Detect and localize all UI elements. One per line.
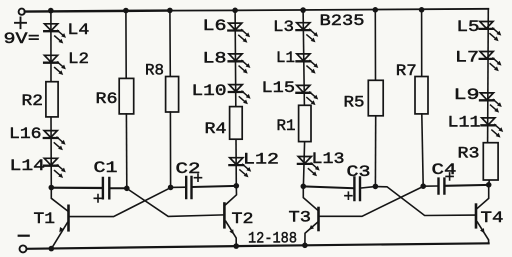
node: rail junction R8 bbox=[167, 8, 173, 14]
node: rail junction R5 bbox=[373, 7, 379, 13]
svg-text:L10: L10 bbox=[192, 82, 227, 100]
resistor R3 bbox=[483, 143, 498, 180]
battery negative terminal bbox=[20, 245, 27, 252]
C4 plus sign bbox=[446, 173, 453, 180]
wire C1 to node bbox=[111, 187, 127, 189]
wire node to C4 bbox=[423, 185, 437, 187]
LED L2 bbox=[44, 55, 66, 75]
wire chain4 lower bbox=[488, 180, 491, 185]
LED L5 bbox=[480, 22, 502, 42]
bottom ground rail bbox=[27, 243, 489, 249]
resistor R1 bbox=[299, 105, 311, 141]
svg-text:L11: L11 bbox=[448, 114, 481, 132]
transistor T3 bbox=[303, 186, 318, 245]
wire T2 base cross-coupling bbox=[127, 189, 223, 217]
LED L16 bbox=[44, 131, 66, 151]
node: T4 collector junction bbox=[486, 182, 492, 188]
resistor R4 bbox=[230, 107, 243, 140]
wire C3 to node bbox=[361, 187, 375, 189]
LED L8 bbox=[229, 54, 251, 74]
wire node to C1 bbox=[51, 187, 101, 190]
node: C4/R7/T3-base junction bbox=[420, 183, 426, 189]
LED L13 bbox=[298, 157, 320, 177]
capacitor C4 bbox=[439, 179, 445, 194]
wire R7 upper bbox=[421, 10, 423, 77]
wire node to C2 bbox=[171, 186, 186, 188]
wire T3 base cross-coupling bbox=[320, 187, 423, 217]
svg-text:L1: L1 bbox=[276, 49, 295, 67]
resistor R6 bbox=[119, 78, 134, 114]
transistor T4 bbox=[476, 185, 489, 243]
svg-text:L5: L5 bbox=[457, 18, 480, 36]
svg-text:L9: L9 bbox=[454, 86, 480, 104]
wire R8 upper bbox=[169, 10, 171, 76]
transistor T2 bbox=[224, 186, 236, 246]
svg-text:L8: L8 bbox=[203, 49, 227, 67]
wire C4 to T4 collector node bbox=[446, 184, 489, 187]
wire R5 upper bbox=[374, 10, 376, 81]
wire T1 base cross-coupling bbox=[70, 188, 171, 217]
svg-text:L4: L4 bbox=[67, 21, 89, 39]
wire chain1 lower bbox=[50, 117, 52, 188]
svg-text:T4: T4 bbox=[481, 209, 504, 227]
svg-text:T1: T1 bbox=[34, 210, 56, 228]
node: T2 collector junction bbox=[234, 183, 240, 189]
LED L10 bbox=[229, 85, 251, 105]
node: rail junction R7 bbox=[419, 7, 425, 13]
svg-text:L7: L7 bbox=[455, 48, 479, 66]
svg-text:12-188: 12-188 bbox=[248, 229, 297, 247]
svg-text:L3: L3 bbox=[273, 18, 294, 36]
svg-text:L16: L16 bbox=[9, 125, 42, 143]
top supply rail bbox=[25, 11, 168, 12]
LED L9 bbox=[480, 93, 502, 113]
svg-text:L2: L2 bbox=[68, 50, 89, 68]
wire R6 upper bbox=[125, 11, 127, 79]
LED L15 bbox=[296, 85, 318, 105]
LED L1 bbox=[297, 54, 319, 74]
wire node to C3 bbox=[303, 186, 353, 188]
C1 plus sign bbox=[94, 195, 101, 202]
node: T1 collector junction bbox=[49, 185, 55, 191]
resistor R7 bbox=[415, 77, 428, 114]
LED L14 bbox=[44, 158, 66, 178]
C2 plus sign bbox=[195, 174, 202, 181]
LED L12 bbox=[229, 158, 251, 178]
svg-text:R4: R4 bbox=[205, 120, 227, 138]
wire T4 base cross-coupling bbox=[376, 187, 475, 216]
node: C3/R5/T4-base junction bbox=[373, 184, 379, 190]
wire chain4 upper bbox=[487, 9, 490, 143]
LED L6 bbox=[228, 23, 250, 43]
wire R8 lower bbox=[169, 112, 171, 187]
svg-text:9V: 9V bbox=[4, 30, 28, 48]
svg-text:C2: C2 bbox=[176, 160, 201, 178]
transistor T1 bbox=[51, 188, 68, 249]
wire chain3 upper bbox=[303, 10, 304, 105]
capacitor C3 bbox=[354, 178, 360, 201]
svg-text:L13: L13 bbox=[312, 150, 345, 168]
battery positive terminal bbox=[19, 9, 25, 15]
svg-text:L12: L12 bbox=[243, 150, 279, 168]
capacitor C2 bbox=[186, 177, 191, 198]
node: T3 collector junction bbox=[301, 184, 307, 190]
wire R6 lower bbox=[125, 114, 127, 188]
battery plus sign bbox=[15, 18, 26, 29]
node: T1-base/R8/C2 junction bbox=[168, 185, 174, 191]
LED L11 bbox=[481, 118, 503, 138]
wire R5 lower bbox=[374, 116, 376, 187]
node: T2 emitter junction bbox=[233, 243, 239, 249]
svg-text:R2: R2 bbox=[22, 92, 44, 110]
node: rail junction chain2 bbox=[232, 8, 238, 14]
svg-text:R6: R6 bbox=[96, 90, 118, 108]
capacitor C1 bbox=[103, 178, 109, 198]
svg-text:T2: T2 bbox=[232, 210, 254, 228]
svg-text:T3: T3 bbox=[289, 209, 312, 227]
svg-text:L6: L6 bbox=[203, 17, 227, 35]
battery minus sign bbox=[19, 235, 29, 237]
wire chain1 upper bbox=[50, 11, 52, 82]
svg-text:R7: R7 bbox=[396, 62, 417, 80]
LED L7 bbox=[480, 52, 502, 72]
svg-text:C1: C1 bbox=[94, 159, 118, 177]
wire chain2 lower bbox=[235, 139, 237, 186]
svg-text:R8: R8 bbox=[145, 62, 164, 80]
LED L4 bbox=[44, 24, 66, 44]
wire chain3 lower bbox=[303, 142, 304, 187]
svg-text:R1: R1 bbox=[277, 117, 296, 135]
resistor R8 bbox=[166, 77, 179, 113]
node: rail junction chain3 bbox=[300, 7, 306, 13]
node: rail junction R6 bbox=[123, 8, 129, 14]
wire chain2 upper bbox=[234, 10, 237, 106]
resistor R5 bbox=[368, 80, 383, 116]
svg-text:R3: R3 bbox=[458, 145, 480, 163]
node: rail junction chain1 bbox=[48, 8, 54, 14]
node: C1/R6/T2-base junction bbox=[124, 186, 130, 192]
node: T1 emitter junction bbox=[49, 246, 55, 252]
svg-text:B235: B235 bbox=[320, 12, 365, 30]
wire R7 lower bbox=[422, 114, 423, 186]
C3 plus sign bbox=[345, 192, 352, 199]
svg-text:R5: R5 bbox=[344, 93, 365, 111]
node: T3 emitter junction bbox=[302, 243, 308, 249]
svg-text:L14: L14 bbox=[10, 157, 46, 175]
wire C2 to T2 collector node bbox=[193, 186, 237, 187]
resistor R2 bbox=[46, 82, 58, 117]
LED L3 bbox=[296, 23, 318, 43]
svg-text:L15: L15 bbox=[262, 79, 296, 97]
svg-text:C3: C3 bbox=[347, 163, 371, 181]
